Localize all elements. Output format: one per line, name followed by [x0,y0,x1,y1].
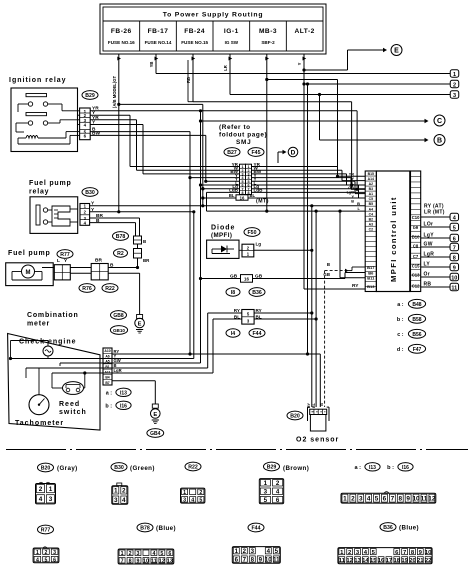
svg-text:GB4: GB4 [150,431,161,437]
svg-text:R77: R77 [60,252,70,258]
svg-text:7: 7 [453,245,456,251]
svg-text:3: 3 [49,496,53,503]
svg-text:A2: A2 [369,182,373,186]
svg-text:B3: B3 [369,187,373,191]
svg-text:meter: meter [27,321,50,328]
svg-text:B4: B4 [105,376,109,380]
svg-text:LgR: LgR [114,368,122,373]
svg-text:RY: RY [256,308,262,313]
svg-text:20: 20 [409,558,416,564]
svg-text:9: 9 [137,559,140,565]
svg-text:A11: A11 [104,370,110,374]
svg-text:B: B [143,239,146,244]
svg-text:6: 6 [453,236,456,242]
svg-text:LgY: LgY [424,233,435,239]
svg-text:LgR: LgR [424,252,435,258]
svg-text:12: 12 [428,495,436,502]
svg-text:18: 18 [393,558,400,564]
svg-text:B58: B58 [412,317,421,323]
svg-text:B: B [437,137,442,144]
svg-text:B17: B17 [367,265,375,270]
svg-text:B5: B5 [369,202,373,206]
svg-text:1: 1 [49,486,53,493]
svg-text:(A/B MODEL)GT: (A/B MODEL)GT [112,76,117,109]
svg-text:E: E [138,321,142,327]
svg-text:BL: BL [312,402,316,408]
svg-text:B20: B20 [290,414,300,420]
svg-text:19: 19 [401,558,408,564]
svg-text:BR: BR [95,258,102,264]
svg-text:1: 1 [343,495,347,502]
svg-text:B15: B15 [368,172,374,176]
svg-text:GB: GB [323,272,330,277]
svg-text:1: 1 [36,550,39,556]
svg-text:8: 8 [398,495,402,502]
svg-text:21: 21 [417,558,424,564]
svg-text:9: 9 [453,265,456,271]
svg-text:3: 3 [264,489,268,496]
svg-text:5: 5 [160,551,163,557]
svg-text:R2: R2 [117,251,124,257]
svg-text:RB: RB [186,77,191,83]
svg-text:a :: a : [106,391,112,397]
svg-text:3: 3 [183,498,186,504]
svg-text:GW: GW [424,242,433,248]
svg-text:LR (MT): LR (MT) [424,210,445,216]
svg-text:B36: B36 [383,525,393,531]
svg-text:IG-1: IG-1 [224,28,239,35]
svg-text:10: 10 [143,559,149,565]
svg-text:17: 17 [386,558,393,564]
svg-text:1: 1 [453,72,456,78]
svg-text:B30: B30 [114,465,124,471]
svg-text:7: 7 [121,559,124,565]
svg-text:b :: b : [105,404,112,410]
svg-text:BL: BL [229,193,235,198]
svg-text:LY: LY [424,262,431,268]
svg-text:B56: B56 [412,332,421,338]
svg-text:B: B [327,262,330,267]
svg-text:I8: I8 [231,290,235,296]
svg-text:10: 10 [425,550,432,556]
svg-text:(Refer to: (Refer to [219,124,251,131]
svg-text:C10: C10 [412,215,420,220]
svg-text:GB10: GB10 [113,328,125,333]
svg-text:11: 11 [451,285,457,291]
svg-text:(Gray): (Gray) [57,465,78,472]
svg-text:B7: B7 [105,381,109,385]
svg-text:B78: B78 [116,234,126,240]
svg-text:A4: A4 [369,207,373,211]
svg-text:C5: C5 [369,197,373,201]
svg-text:(Brown): (Brown) [283,465,309,472]
svg-text:2: 2 [199,490,202,496]
svg-text:MPFI control unit: MPFI control unit [389,196,398,282]
svg-text:Diode: Diode [211,225,235,232]
svg-text:B78: B78 [140,526,150,532]
svg-text:b :: b : [397,317,404,323]
svg-text:SBF-2: SBF-2 [261,40,275,45]
svg-text:11: 11 [421,495,428,502]
svg-text:2: 2 [129,551,132,557]
svg-text:13: 13 [354,558,361,564]
svg-text:B48: B48 [412,302,421,308]
svg-text:YB: YB [149,62,154,68]
svg-text:4: 4 [191,498,194,504]
svg-text:15: 15 [370,558,377,564]
svg-text:3: 3 [359,495,363,502]
svg-text:R76: R76 [82,286,92,292]
svg-text:4: 4 [367,495,371,502]
svg-text:2: 2 [453,82,456,88]
svg-text:11: 11 [273,556,280,563]
svg-text:To Power Supply Routing: To Power Supply Routing [163,12,264,19]
svg-text:a :: a : [354,465,361,471]
svg-text:2: 2 [45,550,48,556]
svg-text:4: 4 [39,496,43,503]
svg-text:(Blue): (Blue) [399,525,419,532]
svg-text:SMJ: SMJ [236,139,252,146]
svg-text:5: 5 [199,498,202,504]
svg-text:I4: I4 [231,331,235,337]
svg-text:12: 12 [159,559,165,565]
svg-text:I13: I13 [120,390,127,396]
svg-text:5: 5 [375,495,379,502]
svg-text:3: 3 [114,497,118,504]
svg-text:MB-3: MB-3 [259,28,277,35]
svg-text:GB8: GB8 [113,313,124,319]
svg-text:14: 14 [362,558,369,564]
svg-text:C7: C7 [413,254,419,259]
svg-text:6: 6 [53,557,56,563]
svg-text:4: 4 [122,497,126,504]
svg-text:FB-26: FB-26 [111,28,132,35]
svg-text:C15: C15 [412,263,420,268]
svg-text:B27: B27 [227,150,237,156]
svg-text:Reed: Reed [59,401,80,408]
svg-text:B2: B2 [369,217,373,221]
svg-text:22: 22 [425,558,432,564]
svg-text:B13: B13 [367,284,375,289]
svg-text:Lg: Lg [256,242,262,247]
svg-text:6: 6 [383,495,387,502]
svg-text:3: 3 [453,93,456,99]
svg-text:3: 3 [53,550,56,556]
svg-text:16: 16 [378,558,385,564]
svg-text:R77: R77 [41,528,51,534]
svg-text:Y: Y [297,62,302,65]
svg-text:2: 2 [351,495,355,502]
svg-text:FB-17: FB-17 [148,28,169,35]
svg-text:B1: B1 [105,365,109,369]
svg-text:C8: C8 [413,243,419,248]
svg-text:16: 16 [240,195,245,200]
svg-text:BL: BL [250,193,256,198]
svg-text:R22: R22 [105,286,115,292]
svg-text:6: 6 [168,551,171,557]
svg-text:1: 1 [121,551,124,557]
svg-text:1: 1 [114,488,118,495]
svg-text:16: 16 [244,277,249,282]
svg-text:Fuel pump: Fuel pump [8,250,51,257]
svg-text:12: 12 [346,558,353,564]
svg-text:F45: F45 [252,150,261,156]
svg-text:LOr: LOr [424,222,434,228]
svg-text:10: 10 [412,495,420,502]
svg-text:I16: I16 [402,465,409,471]
svg-text:13: 13 [167,559,173,565]
svg-text:B29: B29 [267,465,277,471]
svg-text:FB-24: FB-24 [184,28,205,35]
svg-text:8: 8 [453,255,456,261]
svg-text:A1: A1 [369,192,373,196]
svg-text:2: 2 [276,480,280,487]
svg-text:10: 10 [451,275,457,281]
svg-text:3: 3 [137,551,140,557]
svg-text:C12: C12 [412,283,420,288]
svg-text:Combination: Combination [27,312,79,319]
svg-text:C2: C2 [369,227,373,231]
svg-text:O2 sensor: O2 sensor [296,437,339,444]
svg-text:B: B [351,200,354,204]
svg-text:Tachometer: Tachometer [15,420,64,427]
svg-text:B: B [357,201,360,206]
svg-text:1: 1 [264,480,268,487]
svg-text:B11: B11 [367,276,375,281]
svg-text:E: E [153,412,157,418]
svg-text:F50: F50 [248,230,257,236]
svg-text:RY: RY [352,283,359,289]
svg-text:GB: GB [348,186,354,190]
svg-text:Or: Or [424,272,430,278]
svg-text:YR: YR [349,173,355,177]
svg-text:B: B [320,403,324,406]
svg-text:FUSE NO.15: FUSE NO.15 [181,40,208,45]
svg-text:LR: LR [223,65,228,71]
svg-text:FUSE NO.16: FUSE NO.16 [108,40,135,45]
svg-text:4: 4 [36,557,39,563]
svg-text:BR: BR [143,258,150,263]
svg-text:ALT-2: ALT-2 [295,28,315,35]
svg-text:11: 11 [151,559,157,565]
svg-text:FUSE NO.14: FUSE NO.14 [145,40,172,45]
svg-text:9: 9 [406,495,410,502]
svg-text:Ignition relay: Ignition relay [9,77,67,84]
svg-text:F44: F44 [253,331,262,337]
svg-text:D: D [291,149,296,156]
svg-text:F44: F44 [252,526,261,532]
svg-text:E: E [394,47,399,54]
svg-text:(Blue): (Blue) [156,525,176,532]
svg-text:I16: I16 [120,403,127,409]
svg-text:Fuel pump: Fuel pump [29,180,72,187]
svg-text:switch: switch [59,409,87,416]
svg-text:F47: F47 [413,347,422,353]
svg-text:d :: d : [397,347,404,353]
svg-text:7: 7 [391,495,395,502]
svg-text:B10: B10 [412,234,420,239]
svg-text:4: 4 [276,489,280,496]
svg-text:(Green): (Green) [130,465,155,472]
svg-text:B36: B36 [252,290,262,296]
svg-text:b :: b : [387,465,394,471]
svg-text:B30: B30 [85,190,95,196]
svg-text:C4: C4 [369,212,373,216]
svg-text:2: 2 [39,486,43,493]
svg-text:IG SW: IG SW [225,40,239,45]
svg-text:11: 11 [339,558,346,564]
svg-text:RY: RY [234,308,240,313]
svg-text:5: 5 [264,497,268,504]
svg-text:6: 6 [276,497,280,504]
svg-text:A14: A14 [368,177,374,181]
svg-text:4: 4 [152,551,155,557]
svg-text:A3: A3 [369,222,373,226]
svg-text:1: 1 [183,490,186,496]
svg-text:5: 5 [453,225,456,231]
svg-text:8: 8 [129,559,132,565]
svg-text:B29: B29 [85,93,95,99]
svg-text:(MT): (MT) [256,199,269,205]
svg-text:C: C [437,118,442,125]
svg-text:foldout page): foldout page) [219,132,267,139]
svg-text:b9: b9 [413,225,419,230]
svg-text:(MPFI): (MPFI) [211,232,232,239]
svg-text:I13: I13 [369,465,376,471]
svg-text:10: 10 [265,556,272,563]
svg-text:a :: a : [397,302,403,308]
svg-text:B20: B20 [41,466,51,472]
svg-text:A6: A6 [105,354,109,358]
svg-text:C13: C13 [412,272,420,277]
svg-text:M: M [26,270,31,276]
svg-text:RB: RB [424,282,432,288]
svg-text:2: 2 [122,488,126,495]
svg-text:relay: relay [29,189,49,196]
svg-text:A10: A10 [104,349,110,353]
svg-text:L: L [57,258,60,264]
svg-text:5: 5 [45,557,48,563]
svg-text:c :: c : [397,332,403,338]
svg-text:A5: A5 [105,360,109,364]
svg-text:R22: R22 [188,465,198,471]
